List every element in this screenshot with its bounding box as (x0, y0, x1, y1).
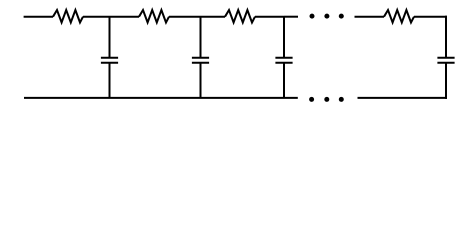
wire node 2 to R3 (201, 16, 226, 18)
wire R4 to top right corner (414, 16, 447, 18)
wire bottom rail right segment (358, 97, 448, 99)
ellipsis dots bottom rail (309, 97, 344, 102)
wire node 1 to R2 (110, 16, 140, 18)
wire R3 to node 3 (255, 16, 284, 18)
wire top rail right segment (355, 16, 385, 18)
capacitor C2 (192, 17, 209, 98)
wire node 3 to break (284, 16, 298, 18)
wire R1 to node 1 (83, 16, 110, 18)
resistor R4 (384, 10, 414, 23)
ellipsis dots top rail (310, 14, 344, 19)
wire bottom rail left segment (24, 97, 298, 99)
capacitor C3 (275, 17, 292, 98)
resistor R1 (53, 10, 83, 23)
wire R2 to node 2 (169, 16, 201, 18)
capacitor C1 (101, 17, 118, 98)
resistor R2 (139, 10, 169, 23)
capacitor C4 (437, 16, 454, 99)
wire top rail left lead (24, 16, 53, 18)
resistor R3 (225, 10, 255, 23)
